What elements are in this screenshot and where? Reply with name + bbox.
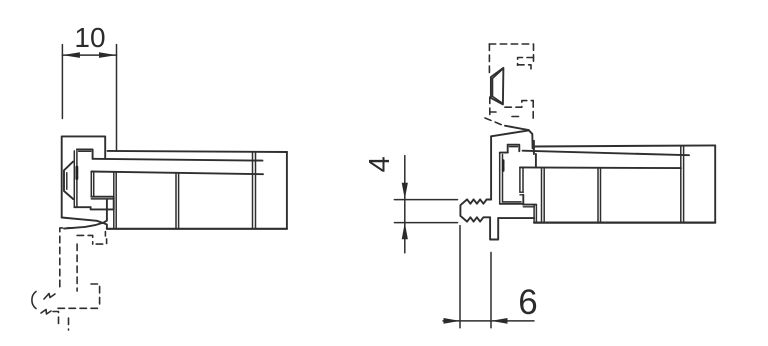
sash box inner wall 2b xyxy=(178,173,180,229)
sash box inner wall 1b xyxy=(115,172,117,229)
hidden sash stub below box xyxy=(104,232,106,236)
right screw right face a xyxy=(519,167,521,192)
sash box glazing wall b xyxy=(255,152,257,229)
screw body right face a xyxy=(90,172,92,197)
right screw left face inner xyxy=(502,155,504,202)
gasket head inner line xyxy=(66,173,68,190)
hidden sash bottom edge xyxy=(58,307,100,309)
dimension 10 arrow right xyxy=(99,52,117,58)
spigot leg xyxy=(490,217,498,239)
screw body left face inner xyxy=(76,151,78,208)
hidden sash outline top corner xyxy=(60,228,74,291)
right screw foot line b xyxy=(523,206,534,208)
screw foot top inner xyxy=(91,198,113,200)
right box inner wall a xyxy=(597,168,599,223)
sash box bottom edge xyxy=(107,228,287,230)
right screw left step xyxy=(507,145,509,153)
dimension 10 arrow left xyxy=(62,52,80,58)
dimension 6 line xyxy=(443,320,534,322)
right screw slot mark upper xyxy=(502,161,505,166)
ghost left edge lower xyxy=(489,97,491,116)
right profile right face lower xyxy=(535,154,537,168)
right profile beak tip to face xyxy=(529,130,533,148)
gasket leaf inner left xyxy=(492,78,494,96)
right screw top bar xyxy=(508,145,520,152)
frame profile outer (left drawing) xyxy=(62,136,105,217)
right box glazing wall a xyxy=(680,146,682,223)
dimension 6 extension line right xyxy=(490,252,492,327)
hidden sash top right piece xyxy=(96,239,106,244)
right screw bottom outer xyxy=(500,203,524,205)
hidden sash inner left edge xyxy=(76,244,78,291)
sash blade bottom line xyxy=(93,159,263,161)
sash box right edge xyxy=(286,152,288,229)
screw body left face outer xyxy=(73,151,75,208)
screw foot right edge xyxy=(113,197,115,210)
dimension 6 arrow right xyxy=(491,318,508,324)
screw slot mark upper xyxy=(76,167,79,174)
right screw foot line a xyxy=(523,204,536,206)
ghost lower right bottom xyxy=(512,116,522,118)
dimension 4 tick bottom xyxy=(394,222,457,224)
right box inner wall b xyxy=(600,168,602,223)
sash blade top line xyxy=(108,151,288,152)
sash box inner wall 2a xyxy=(175,173,177,229)
ghost step 2 xyxy=(518,65,531,73)
screw foot top edge xyxy=(91,196,113,198)
gasket head trapezoid xyxy=(64,162,73,199)
right screw right face b xyxy=(522,167,524,192)
dimension 4 arrow bottom xyxy=(402,223,408,240)
screw top arm outer xyxy=(77,149,93,158)
right box top edge xyxy=(520,166,681,169)
hidden sash squiggle lower xyxy=(41,310,51,315)
frame bottom lip lower edge xyxy=(64,223,103,229)
gasket leaf inner diagonal bottom xyxy=(493,96,503,103)
sash box left edge xyxy=(103,200,107,229)
hidden sash bottom tail xyxy=(53,312,59,325)
spigot fir-tree outline xyxy=(460,199,491,221)
right screw bottom inner xyxy=(502,201,521,203)
right profile beak bottom line xyxy=(491,130,528,136)
svg-text:6: 6 xyxy=(518,283,537,322)
screw foot bottom step xyxy=(91,207,114,209)
right profile beak top line xyxy=(505,126,529,130)
right box second line xyxy=(523,151,689,156)
screw body right face b xyxy=(93,172,95,197)
hidden sash squiggle upper xyxy=(44,294,55,300)
screw slot mark lower xyxy=(76,176,79,179)
ghost step 1 xyxy=(518,58,534,66)
right profile right face upper xyxy=(533,141,535,154)
hidden sash inner top bar xyxy=(77,235,93,244)
svg-text:4: 4 xyxy=(364,156,396,172)
right box glazing wall b xyxy=(683,146,685,223)
right screw top bar inner xyxy=(510,146,518,148)
dimension 4 tick top xyxy=(394,199,457,201)
ghost lower right vertical xyxy=(532,101,534,119)
dimension 10 extension line right xyxy=(116,45,118,152)
right screw left face outer xyxy=(499,153,501,204)
ghost lower right corner xyxy=(505,101,533,108)
right box left wall a xyxy=(541,168,543,223)
right screw slot mark lower xyxy=(502,167,505,171)
ghost slope dashes xyxy=(485,118,503,125)
right box top line xyxy=(533,145,715,146)
hidden sash right step xyxy=(91,284,100,308)
ghost left edge xyxy=(488,44,490,74)
right profile bottom corner b xyxy=(535,205,537,223)
sash box inner wall 1a xyxy=(113,172,115,229)
right profile left face xyxy=(490,136,492,199)
sash box top edge xyxy=(91,172,263,175)
right profile bottom corner a xyxy=(533,205,535,223)
right box left wall b xyxy=(543,168,545,223)
right screw step vertical xyxy=(522,195,524,205)
right box right edge xyxy=(714,145,716,222)
gasket leaf inner diagonal top xyxy=(493,70,503,79)
right screw neck line xyxy=(500,152,508,154)
ghost bottom short xyxy=(490,111,496,113)
gasket leaf outer (right drawing) xyxy=(491,68,504,105)
screw foot bottom xyxy=(74,206,90,208)
screw top arm inner xyxy=(79,150,91,152)
hidden sash bottom tail 2 xyxy=(68,318,70,330)
dimension 4 line xyxy=(404,156,406,253)
sash box glazing wall a xyxy=(252,152,254,229)
dimension 6 extension line left xyxy=(459,226,461,328)
dimension 10 line xyxy=(62,54,116,56)
right box bottom edge xyxy=(534,222,715,224)
dimension 6 arrow left xyxy=(444,318,461,324)
right profile bottom edge xyxy=(498,217,534,219)
right screw step lines xyxy=(520,192,523,195)
dimension 4 arrow top xyxy=(402,183,408,200)
svg-text:10: 10 xyxy=(74,22,105,53)
dimension 10 extension line left xyxy=(61,45,63,119)
hidden frame ghost top edge xyxy=(489,44,533,62)
frame bottom lip upper edge xyxy=(62,218,103,223)
hidden sash break arc xyxy=(32,292,36,309)
